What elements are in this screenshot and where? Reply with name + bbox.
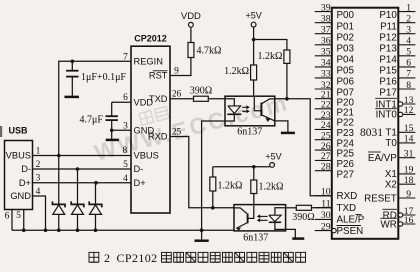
svg-text:38: 38 bbox=[321, 14, 331, 25]
svg-text:P04: P04 bbox=[337, 54, 355, 65]
svg-text:P13: P13 bbox=[379, 43, 397, 54]
svg-text:5: 5 bbox=[16, 211, 21, 221]
svg-text:9: 9 bbox=[174, 66, 179, 76]
svg-text:T0: T0 bbox=[385, 138, 397, 149]
svg-text:WR: WR bbox=[380, 219, 396, 230]
svg-text:P05: P05 bbox=[337, 66, 355, 77]
svg-text:D+: D+ bbox=[19, 178, 31, 188]
svg-text:P14: P14 bbox=[379, 54, 397, 65]
svg-text:P24: P24 bbox=[337, 138, 355, 149]
svg-text:31: 31 bbox=[404, 149, 414, 160]
svg-text:P16: P16 bbox=[379, 77, 397, 88]
svg-text:D-: D- bbox=[134, 164, 144, 174]
svg-text:33: 33 bbox=[321, 69, 331, 80]
svg-text:USB: USB bbox=[9, 126, 29, 136]
svg-text:2: 2 bbox=[104, 251, 110, 265]
svg-text:1.2kΩ: 1.2kΩ bbox=[218, 181, 243, 192]
svg-text:RXD: RXD bbox=[337, 191, 358, 202]
svg-text:18: 18 bbox=[404, 175, 414, 186]
svg-text:37: 37 bbox=[321, 25, 331, 36]
svg-text:PSEN: PSEN bbox=[337, 226, 364, 237]
svg-text:4: 4 bbox=[406, 36, 411, 47]
svg-text:15: 15 bbox=[404, 123, 414, 134]
svg-text:11: 11 bbox=[321, 198, 330, 209]
svg-text:+5V: +5V bbox=[245, 11, 261, 21]
svg-text:26: 26 bbox=[172, 90, 182, 100]
svg-text:8031: 8031 bbox=[360, 127, 383, 139]
svg-text:2: 2 bbox=[406, 14, 411, 25]
svg-text:P10: P10 bbox=[379, 10, 397, 21]
svg-text:EA/VP: EA/VP bbox=[368, 153, 397, 164]
svg-text:10: 10 bbox=[321, 187, 331, 198]
svg-text:P17: P17 bbox=[379, 88, 396, 99]
svg-text:36: 36 bbox=[321, 36, 331, 47]
svg-text:VDD: VDD bbox=[181, 11, 201, 22]
svg-text:INT0: INT0 bbox=[376, 110, 398, 121]
svg-text:X2: X2 bbox=[385, 180, 397, 191]
svg-text:2: 2 bbox=[36, 160, 41, 170]
svg-text:D-: D- bbox=[21, 164, 31, 174]
svg-text:1.2kΩ: 1.2kΩ bbox=[259, 181, 284, 192]
svg-text:P01: P01 bbox=[337, 21, 354, 32]
svg-text:VBUS: VBUS bbox=[134, 150, 159, 160]
svg-text:12: 12 bbox=[404, 105, 414, 116]
svg-text:TXD: TXD bbox=[337, 203, 357, 214]
svg-text:REGIN: REGIN bbox=[134, 57, 163, 67]
svg-text:5: 5 bbox=[123, 160, 128, 170]
svg-text:P06: P06 bbox=[337, 77, 355, 88]
svg-text:4.7kΩ: 4.7kΩ bbox=[197, 46, 222, 57]
svg-text:7: 7 bbox=[123, 52, 128, 62]
svg-text:25: 25 bbox=[172, 127, 182, 137]
svg-text:4: 4 bbox=[123, 174, 128, 184]
svg-text:34: 34 bbox=[321, 58, 331, 69]
svg-text:4.7μF: 4.7μF bbox=[80, 115, 104, 126]
svg-text:CP2102: CP2102 bbox=[117, 251, 158, 265]
svg-text:28: 28 bbox=[321, 162, 331, 173]
svg-text:P27: P27 bbox=[337, 169, 354, 180]
svg-text:1μF+0.1μF: 1μF+0.1μF bbox=[81, 72, 126, 83]
svg-text:5: 5 bbox=[406, 47, 411, 58]
svg-text:6n137: 6n137 bbox=[237, 127, 262, 138]
svg-text:D+: D+ bbox=[134, 178, 146, 188]
svg-text:8: 8 bbox=[406, 80, 411, 91]
svg-text:+5V: +5V bbox=[265, 152, 281, 162]
svg-text:CP2012: CP2012 bbox=[134, 34, 167, 44]
svg-text:39: 39 bbox=[321, 2, 331, 13]
svg-text:6: 6 bbox=[5, 211, 10, 221]
svg-text:6n137: 6n137 bbox=[243, 233, 268, 244]
svg-text:35: 35 bbox=[321, 47, 331, 58]
svg-text:390Ω: 390Ω bbox=[190, 86, 212, 97]
svg-text:9: 9 bbox=[406, 189, 411, 200]
svg-text:14: 14 bbox=[404, 134, 414, 145]
svg-text:1: 1 bbox=[406, 2, 411, 13]
svg-text:RST: RST bbox=[149, 71, 168, 81]
svg-text:390Ω: 390Ω bbox=[292, 212, 314, 223]
svg-text:7: 7 bbox=[406, 69, 411, 80]
svg-text:RXD: RXD bbox=[148, 132, 168, 142]
svg-text:TXD: TXD bbox=[149, 94, 168, 104]
svg-text:ALE/P: ALE/P bbox=[337, 215, 365, 226]
svg-text:GND: GND bbox=[10, 191, 31, 201]
svg-text:25: 25 bbox=[321, 131, 331, 142]
svg-text:16: 16 bbox=[404, 215, 414, 226]
svg-text:VBUS: VBUS bbox=[6, 151, 31, 161]
svg-text:8: 8 bbox=[122, 146, 127, 156]
svg-text:P15: P15 bbox=[379, 66, 397, 77]
svg-text:3: 3 bbox=[406, 25, 411, 36]
svg-text:P12: P12 bbox=[379, 32, 396, 43]
svg-text:1.2kΩ: 1.2kΩ bbox=[258, 51, 283, 62]
svg-text:6: 6 bbox=[406, 58, 411, 69]
svg-text:29: 29 bbox=[321, 221, 331, 232]
svg-text:4: 4 bbox=[36, 187, 41, 197]
svg-text:1.2kΩ: 1.2kΩ bbox=[224, 66, 249, 77]
svg-text:3: 3 bbox=[36, 174, 41, 184]
svg-text:30: 30 bbox=[321, 210, 331, 221]
svg-text:T1: T1 bbox=[385, 128, 396, 139]
svg-text:P11: P11 bbox=[380, 21, 397, 32]
svg-text:P00: P00 bbox=[337, 10, 355, 21]
svg-text:13: 13 bbox=[404, 95, 414, 106]
svg-text:RESET: RESET bbox=[364, 193, 397, 204]
svg-text:1: 1 bbox=[36, 146, 41, 156]
svg-text:P03: P03 bbox=[337, 43, 355, 54]
svg-text:P02: P02 bbox=[337, 32, 354, 43]
